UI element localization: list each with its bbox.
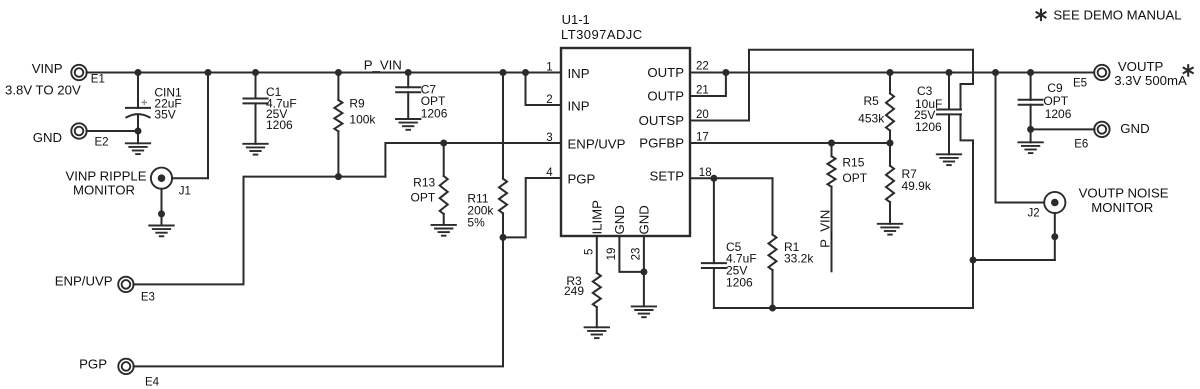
svg-text:1206: 1206 — [915, 120, 942, 134]
svg-text:1206: 1206 — [726, 275, 753, 289]
svg-text:R13: R13 — [413, 175, 435, 189]
svg-text:2: 2 — [546, 94, 552, 106]
svg-text:OUTP: OUTP — [647, 65, 684, 80]
svg-text:PGP: PGP — [79, 357, 107, 372]
svg-text:22: 22 — [696, 61, 709, 73]
svg-text:3.3V 500mA: 3.3V 500mA — [1114, 73, 1187, 88]
svg-text:SETP: SETP — [650, 168, 685, 183]
svg-text:18: 18 — [699, 167, 712, 179]
svg-text:ENP/UVP: ENP/UVP — [568, 137, 626, 152]
svg-text:GND: GND — [33, 130, 62, 145]
svg-text:SEE DEMO MANUAL: SEE DEMO MANUAL — [1053, 7, 1181, 22]
svg-text:21: 21 — [696, 84, 709, 96]
svg-text:5: 5 — [583, 249, 595, 255]
svg-text:MONITOR: MONITOR — [1091, 200, 1153, 215]
svg-text:VINP: VINP — [32, 61, 63, 76]
svg-text:P_VIN: P_VIN — [364, 58, 402, 73]
svg-text:OPT: OPT — [842, 171, 867, 185]
svg-text:C3: C3 — [917, 84, 933, 98]
svg-text:OPT: OPT — [1043, 94, 1068, 108]
svg-text:OUTP: OUTP — [647, 89, 684, 104]
svg-text:E2: E2 — [95, 137, 109, 149]
svg-text:MONITOR: MONITOR — [73, 183, 135, 198]
svg-text:LT3097ADJC: LT3097ADJC — [561, 27, 643, 42]
svg-text:17: 17 — [696, 131, 709, 143]
svg-text:E1: E1 — [91, 73, 105, 85]
svg-text:R9: R9 — [349, 97, 365, 111]
svg-text:33.2k: 33.2k — [784, 251, 814, 265]
svg-text:GND: GND — [1120, 121, 1149, 136]
svg-text:P_VIN: P_VIN — [818, 210, 833, 248]
svg-text:J2: J2 — [1028, 208, 1040, 220]
svg-text:J1: J1 — [179, 185, 191, 197]
svg-text:GND: GND — [612, 205, 627, 234]
svg-text:PGP: PGP — [568, 172, 596, 187]
svg-text:VOUTP: VOUTP — [1118, 59, 1164, 74]
svg-text:VINP RIPPLE: VINP RIPPLE — [65, 169, 146, 184]
svg-text:100k: 100k — [349, 113, 376, 127]
svg-text:5%: 5% — [467, 216, 485, 230]
svg-text:20: 20 — [696, 109, 709, 121]
svg-text:1206: 1206 — [421, 107, 448, 121]
svg-text:E4: E4 — [145, 376, 160, 388]
svg-text:35V: 35V — [154, 108, 175, 122]
svg-text:INP: INP — [568, 99, 590, 114]
svg-text:OUTSP: OUTSP — [639, 113, 685, 128]
svg-text:1: 1 — [546, 61, 552, 73]
svg-text:453k: 453k — [858, 111, 885, 125]
svg-text:1206: 1206 — [1045, 107, 1072, 121]
svg-text:GND: GND — [637, 205, 652, 234]
svg-text:PGFBP: PGFBP — [639, 136, 684, 151]
svg-text:23: 23 — [631, 248, 643, 261]
svg-text:U1-1: U1-1 — [562, 12, 590, 27]
svg-text:E6: E6 — [1074, 139, 1088, 151]
svg-text:249: 249 — [564, 284, 584, 298]
svg-text:VOUTP NOISE: VOUTP NOISE — [1079, 186, 1169, 201]
svg-text:ENP/UVP: ENP/UVP — [55, 273, 113, 288]
svg-text:C9: C9 — [1047, 81, 1063, 95]
svg-text:E5: E5 — [1073, 78, 1087, 90]
svg-text:4: 4 — [546, 167, 553, 179]
svg-text:ILIMP: ILIMP — [590, 200, 605, 235]
svg-text:R15: R15 — [842, 156, 864, 170]
svg-text:INP: INP — [568, 66, 590, 81]
svg-text:19: 19 — [606, 248, 618, 261]
svg-text:3: 3 — [546, 132, 552, 144]
svg-text:E3: E3 — [141, 292, 155, 304]
svg-text:1206: 1206 — [266, 118, 293, 132]
svg-text:R5: R5 — [864, 94, 880, 108]
svg-text:OPT: OPT — [411, 190, 436, 204]
svg-text:3.8V TO 20V: 3.8V TO 20V — [5, 82, 81, 97]
svg-text:49.9k: 49.9k — [902, 179, 932, 193]
